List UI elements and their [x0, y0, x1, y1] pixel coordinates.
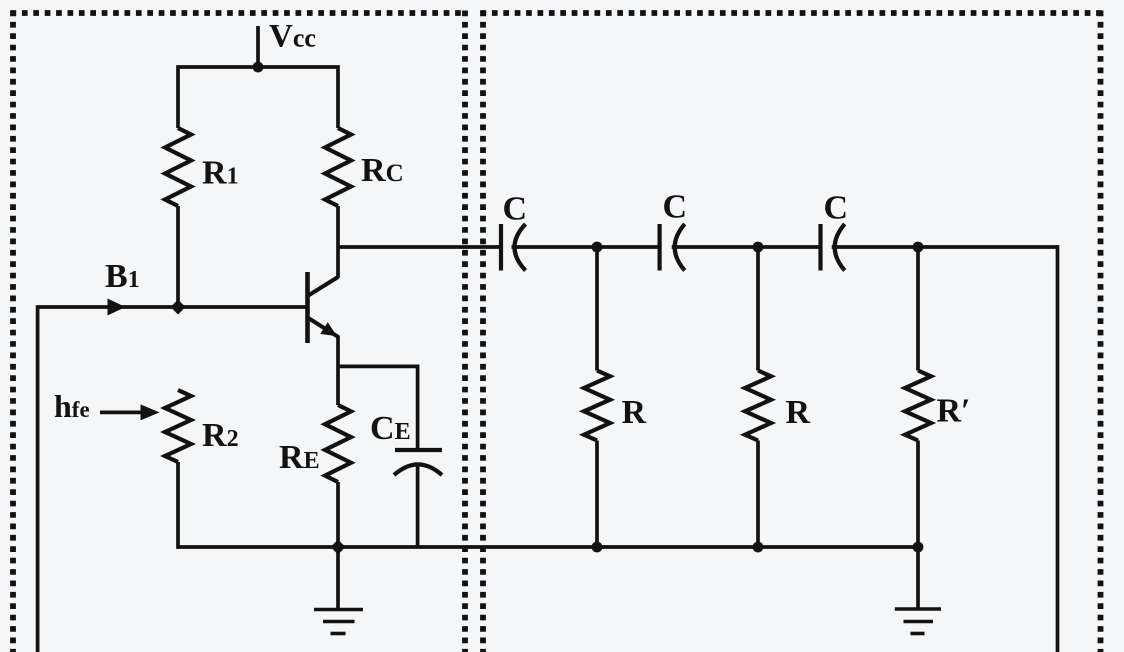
resistor R2	[165, 390, 191, 462]
transistor Q1	[308, 247, 339, 405]
wire output rail to right edge	[918, 247, 1058, 652]
capacitor C2	[660, 224, 685, 271]
capacitor CE	[394, 450, 442, 547]
amplifier stage dotted box	[11, 11, 466, 652]
wire lead down to R (first)	[595, 247, 599, 371]
wire collector output rail	[338, 245, 501, 249]
svg-text:Vcc: Vcc	[269, 19, 316, 55]
node top of R' (third)	[913, 242, 924, 253]
Vcc supply stem	[256, 26, 260, 67]
resistor R (second)	[745, 371, 771, 441]
node base junction dot	[171, 300, 186, 315]
resistor R' (third)	[905, 371, 931, 441]
resistor RE	[325, 405, 351, 482]
wire input base wire	[38, 305, 306, 309]
svg-text:C: C	[663, 189, 688, 226]
capacitor C3	[821, 224, 845, 271]
wire emitter to CE	[338, 366, 418, 450]
wire feedback left vertical	[36, 305, 40, 652]
arrow hfe pointing at R2	[100, 411, 144, 415]
wire bottom rail	[338, 545, 918, 549]
wire lead down to R' (third)	[916, 247, 920, 371]
svg-text:R′: R′	[937, 393, 971, 430]
node top of R (first)	[592, 242, 603, 253]
node emitter-ground junction dot	[331, 540, 346, 555]
wire top rail R1-RC	[178, 67, 338, 128]
svg-text:R: R	[786, 394, 811, 431]
resistor R (first)	[584, 371, 610, 441]
node Vcc junction dot	[253, 62, 264, 73]
resistor R1	[165, 128, 191, 206]
wire R (second) bottom lead	[756, 441, 760, 548]
svg-text:C: C	[503, 191, 528, 228]
wire after C1	[512, 245, 660, 249]
node top of R (second)	[753, 242, 764, 253]
wire R' (third) bottom lead	[916, 441, 920, 548]
feedback network dotted box	[481, 11, 1104, 652]
svg-text:C: C	[824, 190, 849, 227]
resistor RC	[325, 128, 351, 206]
wire RE bottom lead	[336, 482, 340, 547]
svg-text:R: R	[622, 394, 647, 431]
wire lead down to R (second)	[756, 247, 760, 371]
capacitor C1	[501, 224, 526, 271]
wire R2 bottom lead	[178, 462, 338, 547]
wire R (first) bottom lead	[595, 441, 599, 548]
node bottom of R (first)	[592, 542, 603, 553]
node bottom of R (second)	[753, 542, 764, 553]
arrowhead input current direction	[108, 299, 126, 316]
ground feedback network	[895, 547, 941, 634]
wire R1 bottom lead	[176, 206, 180, 307]
wire after C3	[832, 245, 918, 249]
node bottom of R' (third)	[913, 542, 924, 553]
wire RC bottom lead to collector	[336, 206, 340, 247]
wire after C2	[672, 245, 821, 249]
ground amplifier	[314, 547, 363, 634]
